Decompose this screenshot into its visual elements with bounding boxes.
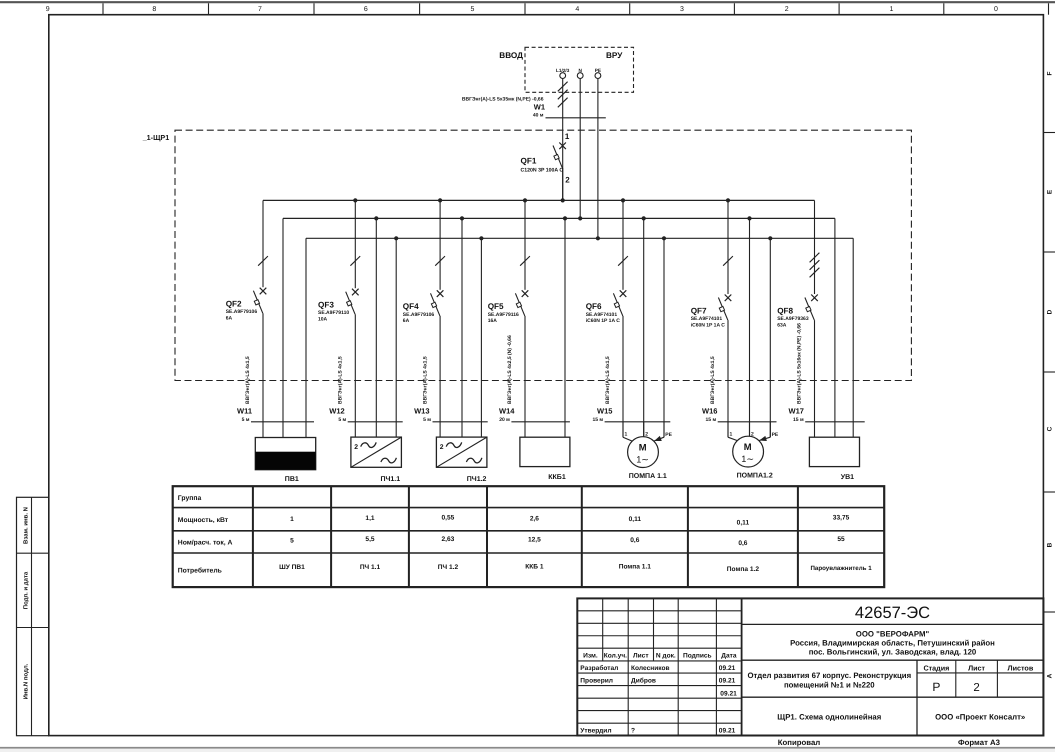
title block stage grid	[916, 660, 918, 735]
breaker QF5 blade	[515, 293, 524, 316]
svg-text:ШУ ПВ1: ШУ ПВ1	[279, 564, 305, 571]
wire N drop feeder 7	[834, 218, 836, 437]
cable W14 tick	[511, 421, 570, 423]
svg-text:15 м: 15 м	[706, 417, 717, 423]
wire N drop feeder 2	[375, 218, 377, 437]
svg-text:iC60N 1P 1A C: iC60N 1P 1A C	[691, 322, 726, 328]
phase slash on QF4 feeder	[435, 256, 445, 266]
svg-text:ПЧ1.1: ПЧ1.1	[380, 476, 400, 483]
svg-text:2,63: 2,63	[442, 536, 455, 543]
svg-text:Лист: Лист	[633, 653, 649, 660]
wire L from breaker QF8 to load	[814, 320, 816, 437]
breaker QF4 blade	[431, 293, 440, 316]
svg-text:1: 1	[625, 431, 628, 437]
svg-text:1,1: 1,1	[365, 515, 374, 522]
svg-text:2: 2	[751, 431, 754, 437]
load ПЧ1.1 frequency converter box	[351, 437, 402, 467]
svg-text:Проверил: Проверил	[580, 677, 613, 684]
svg-text:9: 9	[46, 6, 50, 13]
svg-text:PE: PE	[665, 432, 672, 438]
svg-text:W13: W13	[414, 407, 429, 416]
wire L from breaker QF4 to load	[439, 316, 441, 437]
motor ПОМПА1.2 (М 1~)	[727, 422, 729, 437]
svg-text:QF2: QF2	[226, 300, 242, 309]
load ПЧ1.2 frequency converter box	[436, 437, 487, 467]
wire N drop feeder 3	[461, 218, 463, 437]
svg-text:W17: W17	[789, 407, 804, 416]
title block left grid columns	[602, 598, 604, 661]
left margin table row dividers	[17, 552, 49, 554]
svg-text:0,6: 0,6	[738, 540, 747, 547]
svg-text:2,6: 2,6	[530, 516, 539, 523]
svg-text:7: 7	[258, 6, 262, 13]
wire L from breaker QF6 to load	[622, 316, 624, 437]
right margin row dividers	[1043, 132, 1055, 134]
svg-text:0,11: 0,11	[737, 520, 750, 527]
svg-text:SE.A9F79116: SE.A9F79116	[488, 312, 519, 318]
cable W13 tick	[433, 421, 488, 423]
left margin table frame	[17, 497, 49, 735]
phase slash on QF5 feeder	[520, 256, 530, 266]
svg-text:Разработал: Разработал	[580, 665, 618, 672]
phase slash on QF7 feeder	[723, 256, 733, 266]
title block outer frame	[577, 598, 1043, 735]
svg-text:1: 1	[889, 6, 893, 13]
wire L from breaker QF5 to load	[524, 316, 526, 437]
svg-text:ПЧ 1.1: ПЧ 1.1	[360, 564, 381, 571]
svg-text:SE.A9F79363: SE.A9F79363	[777, 316, 809, 322]
motor ПОМПА 1.1 (М 1~)	[622, 422, 624, 437]
svg-text:1∼: 1∼	[741, 454, 754, 464]
title block line under doc number	[742, 623, 1044, 625]
svg-text:Подпись: Подпись	[683, 653, 712, 660]
svg-text:?: ?	[631, 727, 635, 734]
terminal circle L	[560, 73, 566, 79]
bus PE junction dots	[394, 236, 398, 240]
svg-text:A: A	[1047, 673, 1054, 678]
svg-text:Р: Р	[932, 680, 940, 694]
svg-text:УВ1: УВ1	[841, 474, 854, 481]
svg-text:Взам. инв. N: Взам. инв. N	[23, 507, 30, 544]
wire L drop to breaker QF5	[524, 200, 526, 289]
title block line under project row	[742, 696, 1044, 698]
phase slash on QF3 feeder	[350, 256, 360, 266]
svg-text:10А: 10А	[318, 317, 328, 323]
svg-text:0: 0	[994, 6, 998, 13]
svg-text:Ном/расч. ток, А: Ном/расч. ток, А	[178, 539, 233, 546]
svg-text:L1/2/3: L1/2/3	[556, 68, 570, 73]
svg-text:ПОМПА 1.1: ПОМПА 1.1	[629, 473, 667, 480]
ruler cell dividers	[102, 3, 104, 14]
cable W16 tick	[718, 421, 777, 423]
wire PE drop feeder 1	[305, 238, 307, 437]
svg-text:Формат А3: Формат А3	[958, 738, 1001, 747]
wire L drop to breaker QF7	[727, 200, 729, 294]
svg-text:SE.A9F79106: SE.A9F79106	[226, 309, 258, 315]
svg-text:0,11: 0,11	[629, 516, 642, 523]
terminal circle N	[577, 73, 583, 79]
svg-text:Утвердил: Утвердил	[580, 727, 611, 734]
svg-text:09.21: 09.21	[720, 690, 737, 697]
svg-text:42657-ЭС: 42657-ЭС	[855, 604, 930, 622]
svg-text:QF5: QF5	[488, 302, 504, 311]
panel ЩР1 dashed enclosure	[175, 130, 911, 380]
cable W17 tick	[805, 421, 865, 423]
cable W1 tick	[546, 117, 606, 119]
svg-text:N док.: N док.	[656, 653, 676, 660]
svg-text:ПВ1: ПВ1	[285, 476, 299, 483]
svg-text:Группа: Группа	[178, 495, 202, 502]
wire PE drop feeder 5	[663, 238, 665, 437]
svg-text:Потребитель: Потребитель	[178, 568, 222, 575]
ВРУ dashed box	[525, 47, 634, 92]
breaker QF8 blade	[805, 298, 814, 321]
svg-text:ВВГЭнг(А)-LS 4x2,5 (N) -0,66: ВВГЭнг(А)-LS 4x2,5 (N) -0,66	[507, 335, 513, 404]
svg-text:Стадия: Стадия	[923, 663, 949, 672]
svg-text:Подп. и дата: Подп. и дата	[23, 571, 30, 609]
wire L drop to breaker QF6	[622, 200, 624, 289]
bus N horizontal	[283, 217, 835, 219]
svg-text:iC60N 1P 1A C: iC60N 1P 1A C	[586, 318, 621, 324]
svg-text:QF3: QF3	[318, 301, 334, 310]
title block line under address	[742, 659, 1044, 661]
svg-text:0,6: 0,6	[630, 537, 639, 544]
svg-text:Мощность, кВт: Мощность, кВт	[178, 517, 229, 524]
load ККБ1 box	[520, 437, 570, 466]
breaker QF4 contact X	[437, 290, 444, 297]
svg-text:6: 6	[364, 6, 368, 13]
svg-text:16А: 16А	[488, 318, 498, 324]
svg-text:09.21: 09.21	[719, 677, 736, 684]
svg-text:8: 8	[152, 6, 156, 13]
wire L drop to breaker QF3	[354, 200, 356, 288]
svg-text:пос. Вольгинский, ул. Заводска: пос. Вольгинский, ул. Заводская, влад. 1…	[809, 648, 977, 657]
svg-text:Помпа 1.2: Помпа 1.2	[727, 566, 760, 573]
svg-text:N: N	[579, 68, 583, 73]
svg-text:ККБ 1: ККБ 1	[525, 563, 544, 570]
svg-text:М: М	[744, 441, 752, 452]
svg-text:SE.A9F79110: SE.A9F79110	[318, 310, 349, 316]
svg-text:SE.A9F79106: SE.A9F79106	[403, 312, 435, 318]
svg-text:B: B	[1047, 542, 1054, 547]
svg-text:ПЧ1.2: ПЧ1.2	[467, 476, 487, 483]
bus L junction dots	[353, 198, 357, 202]
breaker QF2 blade	[253, 291, 262, 314]
bus L horizontal	[263, 199, 815, 201]
svg-text:5: 5	[290, 538, 294, 545]
svg-text:PE: PE	[772, 432, 779, 438]
svg-text:W16: W16	[702, 407, 717, 416]
svg-text:C: C	[1047, 426, 1054, 431]
bus PE horizontal	[306, 237, 853, 239]
svg-text:Копировал: Копировал	[778, 738, 821, 747]
svg-text:Листов: Листов	[1008, 663, 1034, 672]
svg-text:W14: W14	[499, 407, 515, 416]
svg-text:М: М	[639, 442, 647, 453]
svg-text:W15: W15	[597, 407, 612, 416]
svg-text:Инв.N подл.: Инв.N подл.	[23, 663, 30, 699]
load ПВ1 box	[255, 438, 315, 470]
svg-text:SE.A9F74101: SE.A9F74101	[691, 316, 723, 322]
svg-text:QF1: QF1	[521, 157, 537, 166]
svg-text:ЩР1. Схема однолинейная: ЩР1. Схема однолинейная	[777, 713, 881, 722]
svg-text:ВВГЭнг(А)-LS 4x1,5: ВВГЭнг(А)-LS 4x1,5	[605, 356, 611, 404]
breaker QF6 blade	[613, 293, 622, 316]
svg-text:4: 4	[575, 6, 579, 13]
svg-text:Дата: Дата	[721, 653, 737, 660]
breaker QF7 contact X	[725, 295, 732, 302]
svg-text:15 м: 15 м	[793, 417, 804, 423]
svg-text:Отдел развития 67 корпус. Реко: Отдел развития 67 корпус. Реконструкция	[747, 671, 911, 680]
svg-text:D: D	[1047, 309, 1054, 314]
svg-text:Лист: Лист	[968, 663, 985, 672]
svg-text:C120N 3P 100A C: C120N 3P 100A C	[521, 168, 564, 174]
svg-text:1∼: 1∼	[636, 455, 649, 465]
svg-text:2: 2	[565, 176, 570, 185]
svg-text:2: 2	[440, 444, 444, 451]
svg-text:_1-ЩР1: _1-ЩР1	[142, 133, 170, 142]
wire N drop feeder 5	[643, 218, 645, 436]
title block left grid rows	[577, 610, 741, 612]
breaker QF7 blade	[718, 298, 727, 321]
cable W12 tick	[348, 421, 403, 423]
svg-text:6А: 6А	[403, 318, 410, 324]
svg-text:09.21: 09.21	[719, 665, 736, 672]
wire N drop feeder 4	[564, 218, 566, 437]
svg-text:63А: 63А	[777, 322, 787, 328]
phase slashes 3x on wire L	[558, 82, 568, 92]
page bottom grey line	[0, 747, 1055, 749]
svg-text:помещений №1 и №220: помещений №1 и №220	[784, 681, 875, 690]
svg-text:3: 3	[680, 6, 684, 13]
wire L drop to breaker QF4	[439, 200, 441, 289]
wire L from breaker QF2 to load	[262, 313, 264, 437]
svg-text:F: F	[1047, 71, 1054, 75]
svg-text:E: E	[1047, 189, 1054, 194]
svg-text:Изм.: Изм.	[583, 653, 598, 660]
svg-text:QF4: QF4	[403, 302, 419, 311]
breaker QF1 blade	[553, 146, 562, 169]
cable W11 tick	[251, 421, 314, 423]
phase slashes 3x on QF8 feeder	[810, 253, 820, 263]
breaker QF1 wire to bus	[562, 168, 564, 200]
ruler band bottom line	[49, 14, 1044, 16]
svg-text:12,5: 12,5	[528, 537, 541, 544]
svg-text:QF8: QF8	[777, 306, 793, 315]
svg-text:W11: W11	[237, 407, 252, 416]
svg-text:ВВГЭнг(А)-LS 5x16ок (N,PE) -0,: ВВГЭнг(А)-LS 5x16ок (N,PE) -0,66	[797, 323, 803, 404]
svg-text:5 м: 5 м	[242, 417, 250, 423]
svg-text:5 м: 5 м	[338, 417, 346, 423]
svg-text:1: 1	[730, 431, 733, 437]
svg-text:ООО «Проект Консалт»: ООО «Проект Консалт»	[935, 713, 1025, 722]
svg-text:QF6: QF6	[586, 302, 602, 311]
svg-text:0,55: 0,55	[442, 515, 455, 522]
wire PE drop feeder 2	[395, 238, 397, 437]
cable W15 tick	[605, 421, 671, 423]
svg-text:5 м: 5 м	[423, 417, 431, 423]
wire L from breaker QF3 to load	[354, 314, 356, 437]
svg-text:SE.A9F74101: SE.A9F74101	[586, 312, 618, 318]
svg-text:ПЧ 1.2: ПЧ 1.2	[438, 564, 459, 571]
wire N from ВРУ to bus N	[579, 79, 581, 219]
svg-text:Кол.уч.: Кол.уч.	[604, 653, 627, 660]
svg-text:Пароувлажнитель 1: Пароувлажнитель 1	[810, 565, 872, 572]
breaker QF3 contact X	[352, 289, 359, 296]
breaker QF1 contact X	[559, 143, 566, 150]
svg-text:ВВОД: ВВОД	[499, 51, 523, 60]
wire L drop to breaker QF8	[814, 200, 816, 294]
svg-text:ВВГЭнг(А)-LS 4x1,5: ВВГЭнг(А)-LS 4x1,5	[422, 356, 428, 404]
breaker QF5 contact X	[522, 290, 529, 297]
phase slash on QF2 feeder	[258, 256, 268, 266]
wire N drop feeder 1	[282, 218, 284, 437]
svg-text:2: 2	[354, 444, 358, 451]
wire L from ВРУ to bus L	[562, 79, 564, 201]
wire PE drop feeder 6	[769, 238, 771, 437]
phase slash on QF6 feeder	[618, 256, 628, 266]
breaker QF3 blade	[346, 292, 355, 315]
sheet top edge line	[0, 1, 1055, 3]
svg-text:2: 2	[785, 6, 789, 13]
svg-text:PE: PE	[595, 68, 601, 73]
svg-text:Россия, Владимирская область,: Россия, Владимирская область, Петушински…	[790, 639, 995, 648]
svg-text:Колесников: Колесников	[631, 665, 670, 672]
svg-text:Помпа 1.1: Помпа 1.1	[619, 563, 652, 570]
svg-text:20 м: 20 м	[499, 417, 510, 423]
svg-text:ПОМПА1.2: ПОМПА1.2	[737, 472, 773, 479]
page bottom grey strip	[0, 749, 1055, 752]
svg-text:1: 1	[565, 132, 570, 141]
breaker QF6 contact X	[620, 290, 627, 297]
load ПВ1 black half	[255, 452, 315, 470]
svg-text:2: 2	[973, 682, 979, 694]
left margin table column divider	[31, 497, 33, 735]
svg-text:W12: W12	[329, 407, 344, 416]
svg-text:15 м: 15 м	[592, 417, 603, 423]
svg-text:W1: W1	[534, 102, 545, 111]
wire PE drop feeder 7	[852, 238, 854, 437]
svg-text:1: 1	[290, 516, 294, 523]
breaker QF2 contact X	[260, 288, 267, 295]
svg-text:ККБ1: ККБ1	[548, 474, 566, 481]
svg-text:ООО "ВЕРОФАРМ": ООО "ВЕРОФАРМ"	[856, 630, 930, 639]
svg-text:40 м: 40 м	[533, 113, 544, 119]
svg-text:QF7: QF7	[691, 306, 707, 315]
svg-text:6А: 6А	[226, 316, 233, 322]
wire PE drop feeder 3	[480, 238, 482, 437]
terminal circle PE	[595, 73, 601, 79]
wire PE from ВРУ to bus PE	[597, 79, 599, 239]
wire L from breaker QF7 to load	[727, 320, 729, 437]
svg-text:ВВГЭнг(А)-LS 4x1,5: ВВГЭнг(А)-LS 4x1,5	[710, 356, 716, 404]
svg-text:55: 55	[837, 536, 845, 543]
svg-text:2: 2	[645, 431, 648, 437]
bus N junction dots	[374, 216, 378, 220]
breaker QF8 contact X	[811, 295, 818, 302]
svg-text:5: 5	[470, 6, 474, 13]
svg-text:Дибров: Дибров	[631, 677, 656, 684]
svg-text:ВВГЭнг(А)-LS 4x1,5: ВВГЭнг(А)-LS 4x1,5	[245, 356, 251, 404]
svg-text:09.21: 09.21	[719, 727, 736, 734]
svg-text:ВВГЭнг(А)-LS 5x35мк (N,PE) -0,: ВВГЭнг(А)-LS 5x35мк (N,PE) -0,66	[462, 96, 544, 102]
svg-text:ВРУ: ВРУ	[606, 51, 623, 60]
svg-text:33,75: 33,75	[833, 514, 850, 521]
wire N drop feeder 6	[749, 218, 751, 436]
svg-text:ВВГЭнг(А)-LS 4x1,5: ВВГЭнг(А)-LS 4x1,5	[338, 356, 344, 404]
svg-text:5,5: 5,5	[365, 536, 374, 543]
load УВ1 box	[809, 437, 859, 466]
wire L drop to breaker QF2	[262, 200, 264, 287]
load data table grid	[173, 486, 885, 587]
